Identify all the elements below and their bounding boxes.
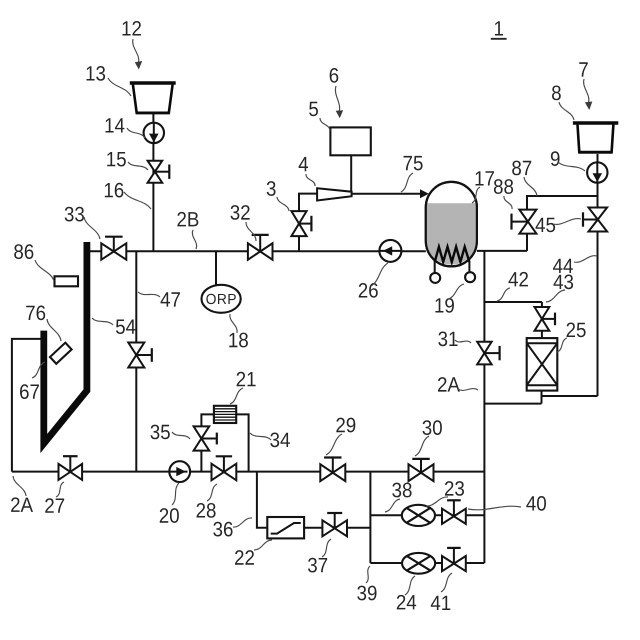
leader line for 38 bbox=[385, 499, 400, 512]
label 25 bbox=[567, 322, 576, 337]
wire 2B main horizontal line bbox=[90, 250, 426, 252]
leader line for 28 bbox=[207, 484, 217, 501]
leader line for 22 bbox=[254, 540, 272, 550]
label 2A bbox=[11, 497, 20, 512]
label 54 bbox=[116, 319, 125, 334]
leader line for 21 bbox=[230, 388, 243, 404]
wire vessel 17 right outlet bbox=[477, 250, 527, 252]
leader line for 2Ab bbox=[458, 389, 478, 391]
pump 24 ellipse-X row2 bbox=[402, 553, 435, 574]
leader line for 30 bbox=[415, 436, 429, 456]
arrow for label 7 bbox=[584, 79, 589, 103]
arrow for label 12 bbox=[133, 39, 139, 63]
leader line for 54 bbox=[92, 318, 113, 325]
wire valve 43 riser bbox=[541, 302, 543, 307]
leader line for 33 bbox=[84, 217, 100, 239]
leader line for 36 bbox=[233, 518, 252, 527]
label 14 bbox=[106, 118, 114, 132]
wire right vertical x=597 bbox=[597, 231, 599, 396]
wire branch down to box 22 bbox=[257, 472, 267, 528]
leader line for 26 bbox=[371, 263, 388, 286]
label 18 bbox=[229, 333, 237, 347]
wire container 67 thin outline bbox=[12, 339, 41, 472]
label 27 bbox=[45, 498, 54, 513]
label 32 bbox=[231, 205, 240, 220]
valve 28 bbox=[223, 456, 225, 472]
sensor 76 tilted rectangle bbox=[50, 343, 72, 364]
leader line for 41 bbox=[441, 573, 452, 592]
label 6 bbox=[330, 68, 339, 83]
label 2A bbox=[438, 377, 447, 392]
label 42 bbox=[509, 272, 518, 286]
pump 38 ellipse-X row1 bbox=[402, 505, 435, 526]
leader line for 31 bbox=[455, 340, 471, 343]
valve 23 bbox=[453, 500, 455, 516]
label 22 bbox=[235, 550, 244, 565]
label 47 bbox=[161, 292, 170, 306]
leader line for 47 bbox=[138, 292, 160, 297]
leader line for 75 bbox=[401, 173, 413, 192]
leader line for 32 bbox=[246, 222, 256, 241]
wire column 25 bottom stem bbox=[541, 391, 543, 404]
wire y=196 link valve 45 to pump 9 line bbox=[527, 196, 598, 210]
wire lower-left vertical bbox=[369, 472, 371, 563]
leader line for 3 bbox=[277, 197, 289, 211]
label 43 bbox=[554, 275, 563, 289]
label 4 bbox=[299, 157, 308, 171]
wire stem from box 5 to eductor 4 bbox=[350, 155, 352, 193]
label 31 bbox=[438, 331, 447, 346]
ion-exchange column 25 bbox=[527, 338, 558, 391]
label 8 bbox=[552, 85, 561, 100]
wire ORP stem bbox=[215, 251, 217, 285]
label 41 bbox=[431, 596, 440, 610]
tank 8 bbox=[573, 121, 618, 125]
label 20 bbox=[160, 508, 169, 523]
wire branch 42 horizontal y=302 bbox=[484, 301, 542, 303]
leader line for 9 bbox=[558, 162, 585, 171]
leader line for 14 bbox=[127, 128, 145, 138]
label 87 bbox=[512, 161, 521, 176]
wire pump 9 down line bbox=[597, 154, 599, 208]
valve 35 bbox=[201, 438, 216, 440]
valve 88 right companion valve bbox=[583, 219, 598, 221]
valve 46 bbox=[136, 354, 152, 356]
leader line for 67 bbox=[32, 362, 45, 378]
leader line for 5 bbox=[320, 118, 330, 131]
label 45 bbox=[536, 218, 545, 232]
leader line for 4 bbox=[306, 174, 315, 186]
valve 27 bbox=[69, 456, 71, 472]
valve 31 bbox=[484, 352, 499, 354]
label 76 bbox=[26, 306, 35, 320]
leader line for 25 bbox=[557, 338, 567, 352]
label 3 bbox=[267, 181, 276, 196]
leader line for 39 bbox=[366, 566, 370, 583]
label 88 bbox=[494, 179, 503, 194]
valve 15 bbox=[155, 171, 169, 173]
label 35 bbox=[151, 425, 160, 440]
eductor 4 bbox=[317, 188, 352, 200]
label 9 bbox=[551, 151, 560, 166]
vessel 17 body bbox=[426, 182, 477, 267]
leader line for 2Aa bbox=[13, 476, 26, 496]
pump 26 bbox=[379, 240, 401, 262]
label 5 bbox=[309, 102, 318, 117]
leader line for 13 bbox=[108, 78, 131, 96]
leader line for 16 bbox=[124, 192, 151, 209]
wire row 1 bypass line bbox=[370, 514, 484, 516]
wire valve 43 to column 25 bbox=[541, 331, 543, 338]
leader line for 40 bbox=[468, 506, 521, 510]
label 75 bbox=[404, 156, 413, 170]
label 36 bbox=[213, 522, 222, 537]
valve 32 bbox=[259, 235, 261, 252]
leader line for 45 bbox=[553, 219, 581, 225]
label 26 bbox=[359, 283, 368, 298]
leader line for 34 bbox=[250, 433, 271, 440]
leader line for 2B bbox=[192, 230, 196, 249]
label 15 bbox=[107, 152, 115, 166]
label 34 bbox=[270, 432, 279, 447]
leader line for 27 bbox=[56, 482, 64, 497]
label 1 bbox=[495, 21, 503, 35]
underline of label 1 bbox=[491, 38, 507, 40]
leader line for 87 bbox=[524, 177, 537, 196]
label 7 bbox=[579, 62, 588, 76]
valve 29 bbox=[332, 458, 334, 473]
wire loop 34 left riser bbox=[200, 451, 202, 472]
wire line 16 vertical from tank 13 bbox=[152, 114, 154, 251]
electrode 54 thick U shape bbox=[44, 242, 87, 444]
leader line for 8 bbox=[559, 102, 574, 120]
label 12 bbox=[123, 21, 131, 35]
leader line for 18 bbox=[230, 314, 237, 333]
label 13 bbox=[87, 66, 95, 80]
leader line for 86 bbox=[35, 260, 54, 281]
wire y=403 link to x=484 line bbox=[484, 403, 541, 405]
valve 45 bbox=[512, 221, 528, 223]
label 19 bbox=[435, 298, 443, 312]
label 40 bbox=[526, 496, 535, 510]
sensor 86 small rectangle bbox=[55, 276, 79, 286]
label 33 bbox=[65, 207, 74, 222]
valve 37 bbox=[334, 513, 336, 528]
valve 43 bbox=[542, 318, 555, 320]
leader line for 76 bbox=[47, 319, 61, 341]
ORP sensor 18 bbox=[202, 285, 241, 313]
label 44 bbox=[553, 259, 562, 273]
valve 30 bbox=[420, 459, 422, 473]
valve 3 bbox=[299, 223, 311, 225]
label 24 bbox=[397, 595, 406, 610]
wire right main vertical x=484 bbox=[483, 251, 485, 563]
leader line for 24 bbox=[405, 576, 415, 595]
check component 22 bbox=[267, 517, 304, 538]
leader line for 37 bbox=[322, 539, 331, 557]
wire valve 37 to lower-left vertical bbox=[347, 527, 370, 529]
arrow for label 6 bbox=[335, 86, 339, 112]
pump 9 bbox=[587, 162, 607, 182]
wire loop 34 right side bbox=[236, 414, 248, 471]
pump 14 bbox=[144, 123, 164, 143]
wire line 75 with arrow into vessel 17 bbox=[352, 193, 421, 195]
wire y=396 link to right line bbox=[542, 395, 598, 397]
label 21 bbox=[237, 372, 246, 387]
leader line for 29 bbox=[326, 434, 342, 455]
leader line for 23 bbox=[426, 497, 448, 506]
label 30 bbox=[423, 420, 432, 435]
label 29 bbox=[336, 418, 345, 433]
leader line for 15 bbox=[128, 162, 148, 170]
wire line 47 vertical bbox=[135, 251, 137, 471]
label 17 bbox=[476, 171, 484, 185]
label 86 bbox=[14, 244, 23, 259]
wire bottom main line 2A bbox=[12, 471, 485, 473]
leader line for 88 bbox=[504, 196, 512, 209]
label 16 bbox=[105, 183, 113, 197]
leader line for 20 bbox=[172, 483, 179, 505]
leader line for 44 bbox=[574, 256, 597, 263]
box 5 bbox=[330, 127, 370, 155]
wire valve 45 lower drop bbox=[526, 234, 528, 251]
leader line for 43 bbox=[546, 290, 565, 302]
wire box 22 to valve 37 bbox=[304, 527, 322, 529]
heater coil 19 bbox=[435, 247, 470, 262]
label 67 bbox=[20, 384, 29, 399]
label 39 bbox=[357, 586, 366, 601]
heater box 21 bbox=[214, 406, 236, 423]
label 2B bbox=[177, 212, 186, 227]
coil lead stubs bbox=[434, 261, 436, 273]
label 38 bbox=[392, 483, 401, 498]
tank 13 bbox=[130, 81, 176, 85]
leader line for 35 bbox=[172, 432, 190, 439]
label 37 bbox=[308, 558, 317, 573]
coil terminal circles bbox=[430, 273, 440, 283]
label 28 bbox=[197, 503, 206, 518]
wire valve 3 riser and link to eductor bbox=[299, 194, 317, 252]
leader line for 42 bbox=[497, 288, 510, 301]
valve 41 bbox=[453, 548, 455, 564]
wire row 2 bypass line bbox=[370, 562, 484, 564]
valve 33 bbox=[113, 237, 115, 252]
label 23 bbox=[445, 481, 454, 496]
leader line for 19 bbox=[448, 284, 464, 299]
pump 20 bbox=[169, 461, 190, 482]
leader line for 17 bbox=[472, 187, 480, 203]
vessel 17 liquid fill bbox=[426, 203, 477, 264]
